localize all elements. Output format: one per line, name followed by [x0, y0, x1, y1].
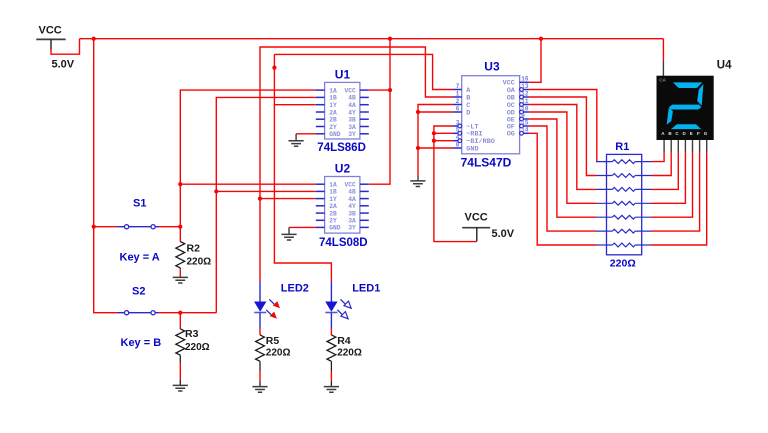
svg-text:74LS08D: 74LS08D: [319, 237, 368, 249]
label U2: [335, 162, 351, 176]
LED2 light arrows: [266, 299, 280, 319]
svg-text:4A: 4A: [348, 196, 356, 203]
svg-text:8: 8: [456, 141, 460, 148]
wire LED1 anode lead: [330, 281, 332, 301]
wire U1 GND: [296, 134, 316, 141]
junction U3 D: [416, 110, 420, 114]
wire U3 OE to R1 r5: [529, 119, 596, 217]
svg-text:3B: 3B: [348, 210, 356, 217]
seven-segment display U4: [657, 61, 714, 152]
wire U3 OG to R1 r7: [529, 133, 596, 245]
wire top VCC rail: [80, 38, 664, 40]
svg-text:VCC: VCC: [344, 87, 356, 94]
svg-text:E: E: [690, 131, 693, 136]
diode LED2: [254, 302, 266, 329]
op-amp U3 decoder 74LS47D: [453, 76, 529, 154]
junction VCC rail left: [92, 37, 96, 41]
wire R1 r5 to display E: [651, 152, 692, 218]
svg-text:3Y: 3Y: [348, 131, 356, 138]
ground for R4: [324, 387, 339, 393]
junction U3 RBI: [432, 131, 436, 135]
svg-text:220Ω: 220Ω: [187, 256, 212, 267]
svg-text:2B: 2B: [329, 210, 337, 217]
wire sum net to U3 A and LED1: [274, 54, 453, 281]
svg-text:GND: GND: [466, 145, 478, 153]
svg-text:10: 10: [521, 105, 529, 112]
svg-text:1A: 1A: [329, 87, 337, 94]
svg-text:Key = B: Key = B: [121, 337, 162, 349]
wire U3 C and D tied to ground: [418, 105, 453, 181]
wire R2 top lead: [179, 227, 181, 242]
ground for R5: [252, 387, 267, 393]
wire U1 VCC to rail: [369, 39, 390, 185]
label LED2: [281, 283, 309, 295]
ground for U3: [410, 181, 425, 187]
svg-text:VCC: VCC: [39, 25, 62, 37]
svg-text:4B: 4B: [348, 189, 356, 196]
wire U3 OA to R1 r1: [529, 90, 597, 162]
svg-text:3Y: 3Y: [348, 225, 356, 232]
wire net B vertical to U1 1B: [216, 97, 315, 312]
wire CA drop from rail: [662, 39, 664, 62]
svg-text:U1: U1: [335, 68, 351, 82]
wire S1 left stub: [94, 226, 118, 228]
svg-text:4Y: 4Y: [348, 109, 356, 116]
junction S1 left: [92, 225, 96, 229]
wire R2 bottom lead: [179, 268, 181, 278]
svg-text:1B: 1B: [329, 189, 337, 196]
wire carry net U2 1Y to U3 B and LED2: [260, 47, 453, 282]
junction S1 right node A: [178, 225, 182, 229]
power VCC source V1: [36, 25, 74, 71]
svg-text:2Y: 2Y: [329, 218, 337, 225]
svg-text:14: 14: [521, 127, 529, 134]
resistor R3: [176, 329, 185, 355]
svg-text:1: 1: [456, 90, 460, 97]
svg-text:U3: U3: [484, 60, 500, 74]
resistor R4: [327, 335, 336, 361]
wire R4 top lead: [330, 328, 332, 335]
wire left vertical to S1/S2: [94, 39, 118, 313]
label R4 220 ohm: [337, 335, 362, 359]
svg-text:2Y: 2Y: [329, 124, 337, 131]
label U4: [717, 59, 732, 71]
svg-text:R1: R1: [615, 141, 629, 153]
label 74LS08D: [319, 237, 368, 249]
junction carry at U2 1Y: [258, 197, 262, 201]
junction VCC rail U3 branch: [539, 37, 543, 41]
svg-text:2A: 2A: [329, 203, 337, 210]
wire U3 OD to R1 r4: [529, 112, 596, 203]
wire net A vertical to U1 1A: [180, 90, 315, 227]
svg-text:74LS47D: 74LS47D: [461, 156, 512, 170]
switch S1: [117, 225, 158, 229]
svg-text:9: 9: [521, 112, 525, 119]
svg-text:7: 7: [456, 83, 460, 90]
svg-text:74LS86D: 74LS86D: [317, 142, 366, 154]
label R3 220 ohm: [185, 328, 210, 353]
svg-text:1A: 1A: [329, 182, 337, 189]
junction net B at U2 1B: [214, 189, 218, 193]
svg-text:3B: 3B: [348, 117, 356, 124]
svg-text:GND: GND: [329, 225, 341, 232]
junction U3 BI/RBO: [432, 139, 436, 143]
svg-text:1Y: 1Y: [329, 196, 337, 203]
svg-text:12: 12: [521, 90, 529, 97]
wire VCC jog to rail: [51, 39, 80, 55]
wire net A branch to U2 1A: [180, 183, 315, 185]
svg-text:R5: R5: [266, 335, 280, 347]
svg-text:5.0V: 5.0V: [52, 59, 75, 71]
svg-text:CA: CA: [659, 78, 666, 83]
junction sum net dot: [272, 66, 276, 70]
svg-text:4: 4: [456, 134, 460, 141]
svg-text:11: 11: [521, 98, 529, 105]
svg-text:S2: S2: [132, 286, 145, 298]
wire sum net U1 1Y branch: [274, 104, 315, 106]
svg-text:16: 16: [521, 76, 529, 83]
svg-text:2B: 2B: [329, 117, 337, 124]
svg-text:G: G: [704, 131, 708, 136]
wire R5 bottom lead: [259, 361, 261, 386]
svg-text:R4: R4: [337, 335, 351, 347]
svg-text:F: F: [697, 131, 700, 136]
label 74LS47D: [461, 156, 512, 170]
junction U3 GND: [416, 146, 420, 150]
wire R3 top lead: [179, 313, 181, 329]
label R1 220 ohm: [610, 258, 636, 270]
ground for R2: [173, 277, 188, 283]
label R5 220 ohm: [266, 335, 291, 359]
svg-text:6: 6: [456, 105, 460, 112]
wire U3 OF to R1 r6: [529, 126, 596, 231]
wire R1 r7 to display G: [651, 152, 706, 246]
junction S2 node B to R3: [178, 311, 182, 315]
junction VCC rail U1/U2 branch: [388, 37, 392, 41]
wire R5 top lead: [259, 328, 261, 335]
label LED1: [352, 283, 380, 295]
resistor R5: [256, 335, 265, 361]
svg-text:R2: R2: [187, 242, 201, 254]
resistor R2: [176, 242, 185, 268]
svg-text:GND: GND: [329, 131, 341, 138]
svg-text:3A: 3A: [348, 218, 356, 225]
label 74LS86D: [317, 142, 366, 154]
label S2: [132, 286, 145, 298]
svg-text:2: 2: [456, 98, 460, 105]
junction U1 VCC: [388, 88, 392, 92]
svg-text:S1: S1: [133, 198, 146, 210]
wire R1 r4 to display D: [651, 152, 685, 204]
svg-text:LED2: LED2: [281, 283, 309, 295]
wire R1 r3 to display C: [651, 152, 678, 190]
svg-text:U4: U4: [717, 59, 732, 71]
ground for U1: [289, 141, 304, 147]
power VCC source V2: [462, 212, 515, 242]
svg-text:15: 15: [521, 119, 529, 126]
resistor network R1: [596, 154, 651, 254]
wire R1 r2 to display B: [651, 152, 671, 176]
label U3: [484, 60, 500, 74]
label R1: [615, 141, 629, 153]
wire R3 bottom lead: [179, 355, 181, 385]
svg-text:R3: R3: [185, 328, 199, 340]
junction net A at U2 1A: [178, 182, 182, 186]
wire LED2 anode lead: [259, 281, 261, 301]
LED1 light arrows: [337, 299, 351, 319]
label S1: [133, 198, 146, 210]
svg-text:4Y: 4Y: [348, 203, 356, 210]
svg-text:5: 5: [456, 127, 460, 134]
wire R1 r1 to display A: [651, 152, 664, 162]
op-amp U2 quad AND 74LS08D: [316, 177, 369, 234]
svg-text:4A: 4A: [348, 102, 356, 109]
svg-text:3A: 3A: [348, 124, 356, 131]
svg-text:220Ω: 220Ω: [266, 348, 291, 359]
svg-text:U2: U2: [335, 162, 351, 176]
op-amp U1 quad XOR 74LS86D: [316, 82, 369, 139]
ground for R3: [173, 385, 188, 391]
label R2 220 ohm: [187, 242, 212, 267]
svg-text:2A: 2A: [329, 109, 337, 116]
switch S2: [117, 311, 158, 315]
svg-text:Key = A: Key = A: [120, 252, 160, 264]
wire R4 bottom lead: [330, 361, 332, 386]
svg-text:OG: OG: [507, 131, 515, 139]
svg-text:4B: 4B: [348, 95, 356, 102]
svg-text:VCC: VCC: [465, 212, 488, 224]
wire R1 r6 to display F: [651, 152, 699, 232]
svg-text:5.0V: 5.0V: [492, 228, 515, 240]
svg-text:220Ω: 220Ω: [185, 342, 210, 353]
svg-text:13: 13: [521, 83, 529, 90]
wire S1 right: [158, 226, 180, 228]
svg-text:VCC: VCC: [344, 182, 356, 189]
wire U2 GND: [289, 227, 316, 234]
diode LED1: [325, 302, 337, 329]
svg-text:220Ω: 220Ω: [337, 348, 362, 359]
label U1: [335, 68, 351, 82]
svg-text:1Y: 1Y: [329, 102, 337, 109]
wire U3 OC to R1 r3: [529, 105, 596, 190]
wire U3 LT RBI BI tie to VCC2: [434, 126, 477, 242]
label Key = B: [121, 337, 162, 349]
wire S2 right: [158, 312, 216, 314]
label Key = A: [120, 252, 160, 264]
svg-text:D: D: [466, 109, 470, 117]
wire net B branch to U2 1B: [216, 190, 315, 192]
svg-text:3: 3: [456, 119, 460, 126]
svg-text:220Ω: 220Ω: [610, 258, 636, 270]
wire U3 VCC to rail: [529, 39, 541, 83]
ground for U2: [281, 234, 296, 240]
svg-text:1B: 1B: [329, 95, 337, 102]
wire U3 OB to R1 r2: [529, 97, 596, 176]
svg-text:LED1: LED1: [352, 283, 380, 295]
